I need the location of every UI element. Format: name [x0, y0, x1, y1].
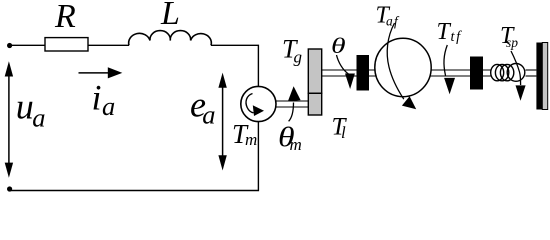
svg-text:tf: tf — [451, 29, 463, 45]
svg-text:l: l — [341, 123, 346, 142]
svg-text:g: g — [294, 48, 303, 67]
svg-text:sp: sp — [506, 35, 518, 50]
svg-text:T: T — [437, 19, 452, 45]
svg-text:θ: θ — [331, 34, 346, 58]
svg-text:i: i — [92, 77, 102, 117]
svg-text:m: m — [245, 130, 257, 149]
svg-text:a: a — [202, 99, 215, 129]
svg-text:m: m — [290, 135, 302, 154]
svg-text:L: L — [160, 0, 180, 32]
svg-text:R: R — [54, 0, 76, 35]
svg-text:u: u — [16, 87, 34, 127]
svg-text:af: af — [386, 14, 400, 29]
svg-text:a: a — [102, 91, 115, 121]
svg-text:a: a — [32, 102, 45, 132]
